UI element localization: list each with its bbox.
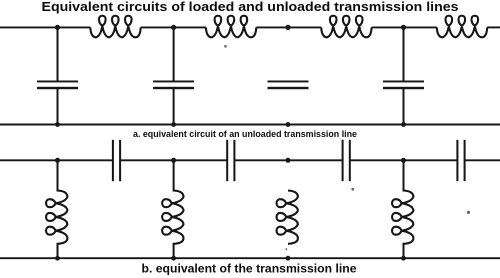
wire — [173, 243, 175, 258]
wire — [487, 26, 500, 28]
node speck — [224, 45, 227, 48]
capacitor C6 series — [226, 140, 228, 181]
node bottom junction 5 — [55, 256, 60, 261]
wire — [141, 26, 206, 28]
wire — [403, 160, 405, 191]
node rail junction 6 — [171, 158, 176, 163]
inductor L4 — [437, 16, 487, 38]
wire — [57, 89, 59, 125]
wire — [173, 89, 175, 125]
wire — [120, 159, 227, 161]
wire — [173, 27, 175, 80]
inductor L6 shunt — [162, 191, 183, 244]
inductor L8 shunt — [392, 191, 413, 244]
inductor L3 — [321, 16, 371, 38]
node bottom rail junction 3 — [286, 122, 291, 127]
wire — [57, 243, 59, 258]
wire — [350, 159, 458, 161]
wire — [403, 243, 405, 258]
node top rail junction 2 — [171, 25, 176, 30]
capacitor C5 series — [112, 140, 114, 181]
wire — [0, 26, 90, 28]
wire — [372, 26, 437, 28]
svg-text:b. equivalent of the transmiss: b. equivalent of the transmission line — [142, 261, 357, 275]
node top rail junction 4 — [401, 25, 406, 30]
inductor L5 shunt — [46, 191, 67, 244]
wire stub — [285, 248, 287, 250]
capacitor C4 — [383, 81, 424, 83]
wire bottom rail — [0, 257, 500, 259]
node bottom rail junction 4 — [401, 122, 406, 127]
wire — [465, 159, 500, 161]
wire — [173, 160, 175, 191]
wire — [234, 159, 342, 161]
node speck — [351, 188, 354, 191]
node top rail junction 3 — [285, 25, 290, 30]
inductor L7 shunt — [277, 191, 298, 244]
inductor L1 — [90, 16, 140, 38]
wire — [57, 160, 59, 191]
capacitor C3 — [268, 81, 309, 83]
capacitor C7 series — [342, 140, 344, 181]
wire bottom rail — [0, 124, 500, 126]
node bottom junction 8 — [401, 256, 406, 261]
capacitor C2 — [153, 81, 194, 83]
capacitor C1 — [37, 81, 78, 83]
node top rail junction 1 — [55, 25, 60, 30]
node bottom rail junction 1 — [55, 122, 60, 127]
node speck — [467, 211, 470, 214]
node rail junction 7 — [286, 158, 291, 163]
svg-text:a. equivalent circuit of an un: a. equivalent circuit of an unloaded tra… — [133, 129, 357, 140]
capacitor C8 series — [456, 140, 458, 181]
node bottom junction 6 — [171, 256, 176, 261]
node bottom junction 7 — [286, 256, 291, 261]
wire — [403, 27, 405, 80]
node bottom rail junction 2 — [171, 122, 176, 127]
wire — [256, 26, 321, 28]
node rail junction 8 — [401, 158, 406, 163]
node rail junction 5 — [55, 158, 60, 163]
inductor L2 — [206, 16, 256, 38]
wire — [0, 159, 113, 161]
svg-text:Equivalent circuits of loaded: Equivalent circuits of loaded and unload… — [42, 0, 459, 14]
wire — [403, 89, 405, 125]
wire — [57, 27, 59, 80]
